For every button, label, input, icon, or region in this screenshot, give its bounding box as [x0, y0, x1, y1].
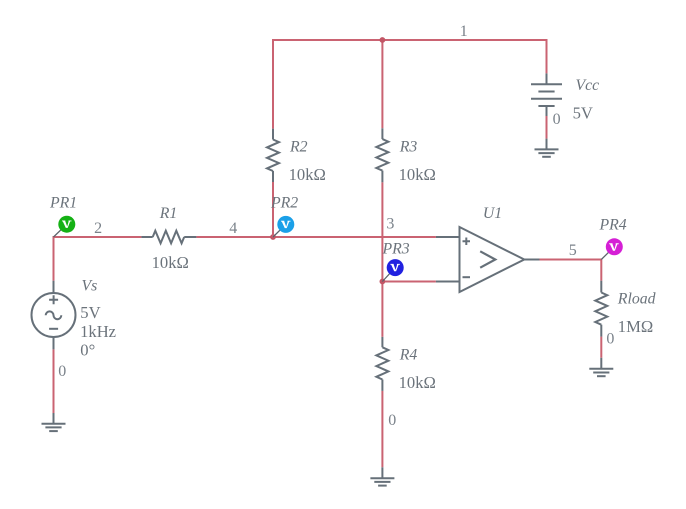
junction node4 [270, 234, 276, 240]
junction node1 [380, 37, 386, 43]
svg-text:5: 5 [569, 242, 577, 259]
svg-text:5V: 5V [80, 303, 100, 322]
svg-text:1MΩ: 1MΩ [618, 317, 653, 336]
svg-text:5V: 5V [573, 103, 593, 122]
resistor Rload [595, 281, 607, 337]
wire node3 vertical [381, 182, 383, 337]
svg-text:3: 3 [386, 216, 394, 233]
wire node1 top rail [273, 40, 547, 129]
wire Rload to ground [600, 337, 602, 358]
svg-text:0°: 0° [80, 341, 95, 360]
ground Vcc [535, 139, 559, 157]
svg-text:R3: R3 [399, 138, 418, 155]
svg-text:10kΩ: 10kΩ [399, 165, 436, 184]
wire R4 to ground [381, 391, 383, 467]
ground Vs [42, 413, 66, 431]
probe PR2 [273, 216, 294, 237]
svg-text:PR4: PR4 [599, 217, 627, 234]
svg-text:0: 0 [388, 412, 396, 429]
ground R4 [370, 467, 394, 485]
source Vs [32, 281, 76, 350]
svg-text:Vcc: Vcc [576, 77, 600, 94]
svg-text:PR1: PR1 [49, 195, 77, 212]
svg-text:R4: R4 [399, 347, 418, 364]
probe PR4 [601, 238, 623, 259]
battery Vcc [531, 73, 562, 116]
svg-text:Vs: Vs [82, 277, 98, 294]
ground Rload [589, 358, 613, 376]
resistor R1 [141, 231, 196, 244]
svg-text:0: 0 [58, 363, 66, 380]
resistor R3 [376, 128, 388, 182]
svg-text:2: 2 [94, 220, 102, 237]
svg-text:PR2: PR2 [270, 195, 298, 212]
wire node5 output [540, 260, 602, 281]
svg-text:PR3: PR3 [382, 241, 410, 258]
wire node1 R3 drop [381, 40, 383, 128]
svg-text:R2: R2 [289, 138, 308, 155]
wire R2 bottom [272, 182, 274, 237]
svg-text:U1: U1 [483, 205, 502, 222]
svg-text:1kHz: 1kHz [80, 322, 116, 341]
wire node3 to inverting input [382, 281, 436, 283]
svg-text:1: 1 [460, 23, 468, 40]
svg-text:0: 0 [606, 330, 614, 347]
wire node2 Vs to R1 [54, 237, 142, 281]
svg-text:0: 0 [553, 111, 561, 128]
probe PR3 [382, 259, 403, 281]
svg-text:4: 4 [229, 220, 237, 237]
wire Vcc to ground [546, 116, 548, 139]
op-amp U1 [436, 227, 540, 292]
probe PR1 [54, 216, 76, 237]
junction node3 [380, 279, 386, 285]
svg-text:Rload: Rload [617, 291, 656, 308]
svg-text:R1: R1 [159, 205, 178, 222]
wire node4 R1 to opamp [196, 236, 436, 238]
svg-text:10kΩ: 10kΩ [152, 253, 189, 272]
svg-text:10kΩ: 10kΩ [289, 165, 326, 184]
resistor R2 [267, 129, 279, 182]
wire Vs to ground [53, 349, 55, 413]
resistor R4 [376, 337, 388, 391]
svg-text:10kΩ: 10kΩ [399, 373, 436, 392]
